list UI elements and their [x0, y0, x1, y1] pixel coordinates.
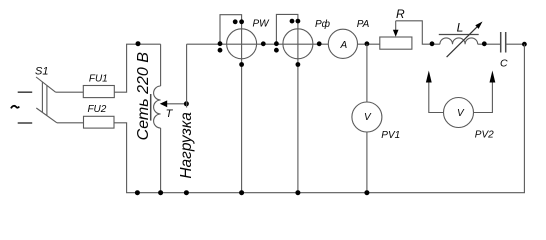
inductor L arrowhead	[475, 22, 482, 29]
inductor L core line	[439, 34, 479, 36]
capacitor C plate right	[505, 32, 507, 53]
node dot top right corner	[522, 42, 527, 47]
svg-text:PW: PW	[253, 18, 271, 29]
node dot PW top wire	[239, 19, 244, 24]
svg-text:C: C	[500, 58, 508, 70]
bottom bus	[126, 192, 525, 194]
node dot between L and C	[482, 41, 487, 46]
resistor R wiper wire to bus	[396, 21, 440, 44]
node dot bottom Pф line	[295, 190, 300, 195]
svg-text:T: T	[166, 108, 174, 120]
ammeter PA circle	[328, 29, 357, 58]
node dot PV1 junction	[365, 41, 370, 46]
resistor R wiper arrowhead	[393, 30, 399, 37]
switch S1 linkage bar line 1	[41, 82, 43, 113]
svg-text:V: V	[457, 108, 465, 119]
fuse FU2	[84, 116, 115, 128]
input stub top	[18, 91, 33, 93]
node dot tap junction	[184, 101, 189, 106]
node dot on bus right of Pф	[317, 41, 322, 46]
resistor R wiper arrow stem	[395, 21, 397, 32]
right vertical bus	[523, 44, 525, 193]
polarity dot PW left	[218, 48, 223, 53]
voltmeter PV1 circle	[352, 102, 382, 132]
svg-text:Нагрузка: Нагрузка	[178, 112, 195, 179]
svg-text:Сеть 220 В: Сеть 220 В	[135, 52, 152, 141]
polarity dot Pф left	[274, 48, 279, 53]
switch S1 blade top	[36, 77, 56, 92]
phase meter Pф vertical line through circle down to bottom bus	[297, 29, 299, 193]
node dot bottom mains right bus	[158, 190, 163, 195]
transformer tap wire	[167, 103, 187, 105]
switch S1 linkage bar line 2	[46, 85, 48, 116]
node dot below Pф	[296, 62, 301, 67]
svg-text:Pф: Pф	[315, 18, 331, 30]
wattmeter PW circle	[227, 29, 257, 59]
mains right bus lower segment	[160, 128, 162, 193]
node dot below PW	[239, 62, 244, 67]
capacitor C plate left	[500, 32, 502, 53]
node dot bottom PW line	[239, 190, 244, 195]
svg-text:S1: S1	[35, 65, 48, 77]
inductor L winding	[440, 38, 478, 44]
PV1 wire upper	[366, 44, 368, 102]
fuse FU1	[83, 86, 114, 98]
node dot bottom near left bus	[135, 190, 140, 195]
node dot bottom load line	[184, 190, 189, 195]
phase meter Pф circle	[283, 29, 313, 59]
polarity dot Pф top floating	[290, 19, 295, 24]
switch S1 blade bottom	[36, 108, 57, 123]
transformer tap arrowhead	[160, 100, 167, 107]
inductor L variability arrow line	[447, 26, 478, 57]
phase meter Pф voltage bracket	[276, 14, 298, 44]
node dot PW bracket junction	[218, 41, 223, 46]
polarity dot PW top floating	[233, 19, 238, 24]
node dot on bus right of PW	[261, 41, 266, 46]
transformer T winding	[154, 86, 161, 128]
svg-text:V: V	[364, 112, 372, 123]
top wire of mains box	[126, 43, 161, 45]
node dot on mains top wire	[136, 41, 141, 46]
svg-text:A: A	[339, 40, 347, 51]
PV2 left probe arrowhead	[426, 71, 432, 83]
wire switch to FU1	[56, 91, 84, 93]
AC source tilde	[11, 106, 19, 109]
svg-text:FU2: FU2	[87, 104, 106, 115]
wattmeter PW voltage bracket	[220, 15, 242, 45]
PV2 right probe arrowhead	[490, 71, 496, 83]
wire C to right corner	[506, 43, 525, 45]
wattmeter PW vertical line through circle down to bottom bus	[241, 29, 243, 193]
svg-text:PV1: PV1	[381, 130, 400, 141]
load line upper segment	[186, 44, 188, 107]
svg-text:R: R	[396, 7, 405, 21]
node dot Pф bracket junction	[274, 41, 279, 46]
mains right bus upper segment	[160, 44, 162, 86]
wire switch to FU2	[57, 122, 84, 124]
PV1 wire lower	[366, 132, 368, 193]
svg-text:PV2: PV2	[475, 130, 494, 141]
transformer T core	[150, 94, 152, 121]
resistor R box	[380, 37, 412, 49]
node dot after R	[430, 41, 435, 46]
top bus from load line to wattmeter area	[187, 43, 329, 45]
wire FU2 to left bus bottom	[114, 123, 127, 193]
input stub bottom	[18, 122, 33, 124]
svg-text:L: L	[457, 21, 464, 35]
svg-text:FU1: FU1	[89, 74, 108, 85]
node dot bottom PV1 line	[364, 190, 369, 195]
wire FU1 to left bus	[114, 44, 126, 92]
PV2 right probe wire	[474, 82, 493, 113]
top bus from PA to resistor R	[358, 43, 380, 45]
svg-text:PA: PA	[357, 19, 370, 30]
voltmeter PV2 circle	[444, 98, 474, 128]
wire L to C	[478, 43, 501, 45]
node dot Pф top wire	[296, 19, 301, 24]
PV2 left probe wire	[429, 82, 444, 113]
